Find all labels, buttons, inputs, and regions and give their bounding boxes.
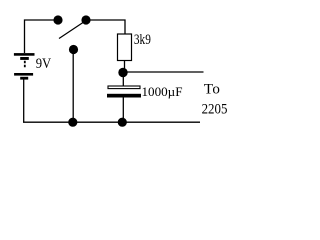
svg-text:To: To — [204, 81, 220, 97]
battery B1 cell1 long plate — [14, 53, 35, 56]
node switch pole on rail — [68, 118, 77, 127]
battery B1 cell1 short plate — [20, 57, 29, 60]
battery B1 cell2 long plate — [14, 73, 33, 76]
svg-text:1000µF: 1000µF — [142, 85, 183, 99]
resistor R1 — [118, 34, 132, 61]
wire bottom rail — [23, 121, 200, 123]
svg-text:9V: 9V — [36, 56, 52, 72]
wire top from switch to resistor — [86, 20, 125, 34]
battery B1 dashed link — [24, 61, 26, 68]
node switch pole — [69, 45, 78, 54]
wire battery bottom to rail — [23, 79, 25, 122]
svg-text:3k9: 3k9 — [134, 32, 151, 48]
capacitor C1 top plate (hollow) — [108, 86, 140, 89]
svg-text:2205: 2205 — [202, 101, 228, 117]
switch SW1 blade (open) — [59, 21, 86, 39]
wire capacitor bottom to rail — [122, 98, 124, 121]
wire top-left from battery to switch — [25, 20, 59, 53]
wire output positive to the right — [126, 71, 204, 73]
capacitor C1 bottom plate (solid) — [107, 94, 141, 98]
battery B1 cell2 short plate — [20, 77, 28, 80]
node capacitor on rail — [118, 118, 127, 127]
wire resistor bottom to junction — [124, 61, 126, 70]
wire junction down to capacitor — [122, 76, 124, 86]
wire switch pole down to bottom rail — [72, 52, 74, 122]
node junction resistor/capacitor/output — [118, 68, 127, 77]
node switch right contact — [81, 15, 90, 24]
node switch left contact — [53, 15, 62, 24]
